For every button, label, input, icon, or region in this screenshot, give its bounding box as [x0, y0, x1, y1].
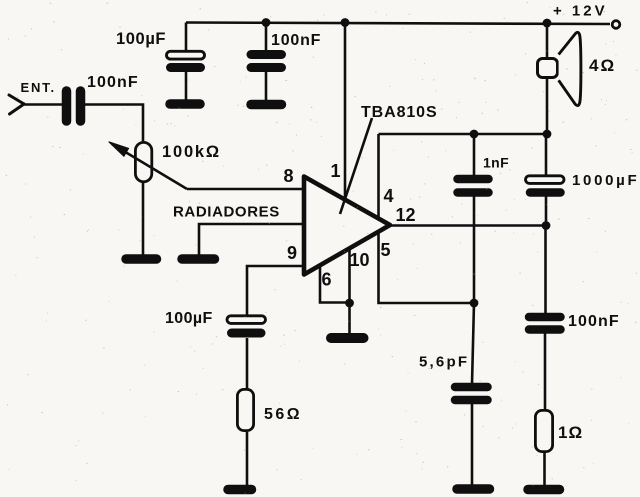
wire speaker bottom lead: [546, 78, 549, 134]
svg-text:10: 10: [349, 250, 369, 270]
node junction pin5 5.6pF: [470, 299, 479, 308]
capacitor C7 1000uF (electrolytic): [526, 176, 565, 193]
wire pin 9 L: [247, 266, 303, 316]
svg-text:4: 4: [383, 186, 393, 206]
wire 100uF-56R mid lead: [246, 338, 249, 389]
node junction top pin1: [341, 18, 350, 27]
wire radiadores tab: [199, 224, 303, 256]
wire 5.6pF bottom lead: [471, 403, 474, 486]
wire 1nF bottom lead down to node: [473, 196, 476, 303]
capacitor C3 100nF top: [251, 55, 282, 68]
wire pin 5 L: [379, 231, 475, 303]
wire pin 1 lead to rail: [344, 23, 347, 201]
svg-text:9: 9: [287, 243, 297, 263]
wire input stub: [24, 103, 62, 106]
capacitor C2 100uF top (electrolytic): [167, 51, 205, 67]
svg-text:100µF: 100µF: [165, 310, 213, 327]
terminal +12V: [612, 21, 620, 29]
wire 5.6pF top lead: [472, 303, 474, 384]
ground 5.6pF: [457, 484, 490, 494]
wire zobel mid lead: [544, 333, 547, 409]
svg-text:ENT.: ENT.: [21, 80, 56, 95]
input connector ENT. chevron: [9, 95, 24, 114]
wire 1000uF bottom lead: [545, 196, 548, 225]
ground 1R: [528, 485, 560, 495]
wire pot top lead: [85, 105, 143, 142]
wire 56R bottom lead: [246, 432, 249, 486]
svg-text:100kΩ: 100kΩ: [162, 143, 221, 161]
svg-text:5,6pF: 5,6pF: [419, 354, 469, 371]
wire pin 6 L: [320, 264, 350, 303]
wire speaker top lead: [546, 23, 549, 58]
node junction top 100nF: [262, 18, 271, 27]
svg-text:RADIADORES: RADIADORES: [173, 204, 280, 221]
svg-text:1Ω: 1Ω: [558, 423, 583, 442]
node junction 1nF bootstrap: [470, 130, 479, 139]
wire pot bottom lead: [142, 183, 145, 256]
svg-text:56Ω: 56Ω: [264, 406, 302, 423]
svg-text:100µF: 100µF: [116, 30, 166, 48]
wire top supply rail: [186, 23, 610, 25]
svg-text:6: 6: [321, 270, 331, 290]
ground 100uF top: [170, 99, 200, 109]
wire 100nF gnd lead: [265, 71, 268, 101]
svg-text:5: 5: [380, 240, 390, 260]
wire 100nF top lead: [265, 23, 268, 52]
wire pin 4 lead: [377, 134, 380, 218]
capacitor C6 5.6pF: [455, 387, 488, 400]
svg-text:100nF: 100nF: [568, 313, 620, 330]
wire zobel lower lead: [543, 453, 546, 486]
ground 100nF top: [251, 100, 282, 110]
capacitor C4 100uF bottom (electrolytic): [227, 316, 266, 333]
svg-text:1nF: 1nF: [483, 155, 509, 171]
wire 1000uF top lead: [545, 134, 548, 177]
speaker LS1 square: [538, 59, 558, 78]
capacitor C1 100nF input (vertical plates): [67, 91, 81, 121]
svg-text:8: 8: [283, 166, 293, 186]
wire 100uF gnd lead: [185, 71, 188, 101]
op-amp U1 TBA810S triangle: [304, 177, 390, 275]
wire pin 10 lead: [348, 248, 351, 334]
svg-text:4Ω: 4Ω: [589, 56, 616, 75]
potentiometer wiper line: [112, 144, 187, 189]
speaker LS1 horn: [559, 32, 581, 105]
node junction pin6 pin10: [345, 299, 354, 308]
node junction output zobel: [542, 221, 551, 230]
potentiometer wiper arrowhead: [109, 142, 129, 156]
resistor R2 56R body: [237, 389, 253, 430]
ground 56R: [228, 485, 252, 495]
resistor R3 1R body: [535, 410, 552, 451]
svg-text:1000µF: 1000µF: [572, 172, 639, 189]
wire bootstrap y=134: [379, 133, 548, 136]
svg-text:100nF: 100nF: [271, 32, 321, 49]
wire TBA810S pointer: [340, 118, 372, 214]
ground radiadores: [182, 254, 215, 264]
wire output pin 12: [391, 224, 546, 227]
svg-text:100nF: 100nF: [87, 74, 139, 91]
capacitor C5 1nF: [458, 179, 489, 193]
ground pot: [126, 254, 157, 264]
svg-text:+ 12V: + 12V: [553, 3, 608, 20]
wire 100uF top lead: [185, 23, 188, 52]
ground pins 6/10: [331, 333, 364, 343]
capacitor C8 100nF right: [529, 317, 561, 330]
wire zobel upper lead: [544, 226, 547, 315]
potentiometer R1 100k body: [135, 142, 151, 181]
node junction top speaker: [543, 19, 552, 28]
wire 1nF top lead: [473, 134, 476, 176]
svg-text:TBA810S: TBA810S: [361, 104, 438, 121]
svg-text:12: 12: [395, 205, 415, 225]
node junction speaker bootstrap: [543, 130, 552, 139]
svg-text:1: 1: [330, 161, 340, 181]
wire pin 8 lead: [187, 188, 303, 191]
